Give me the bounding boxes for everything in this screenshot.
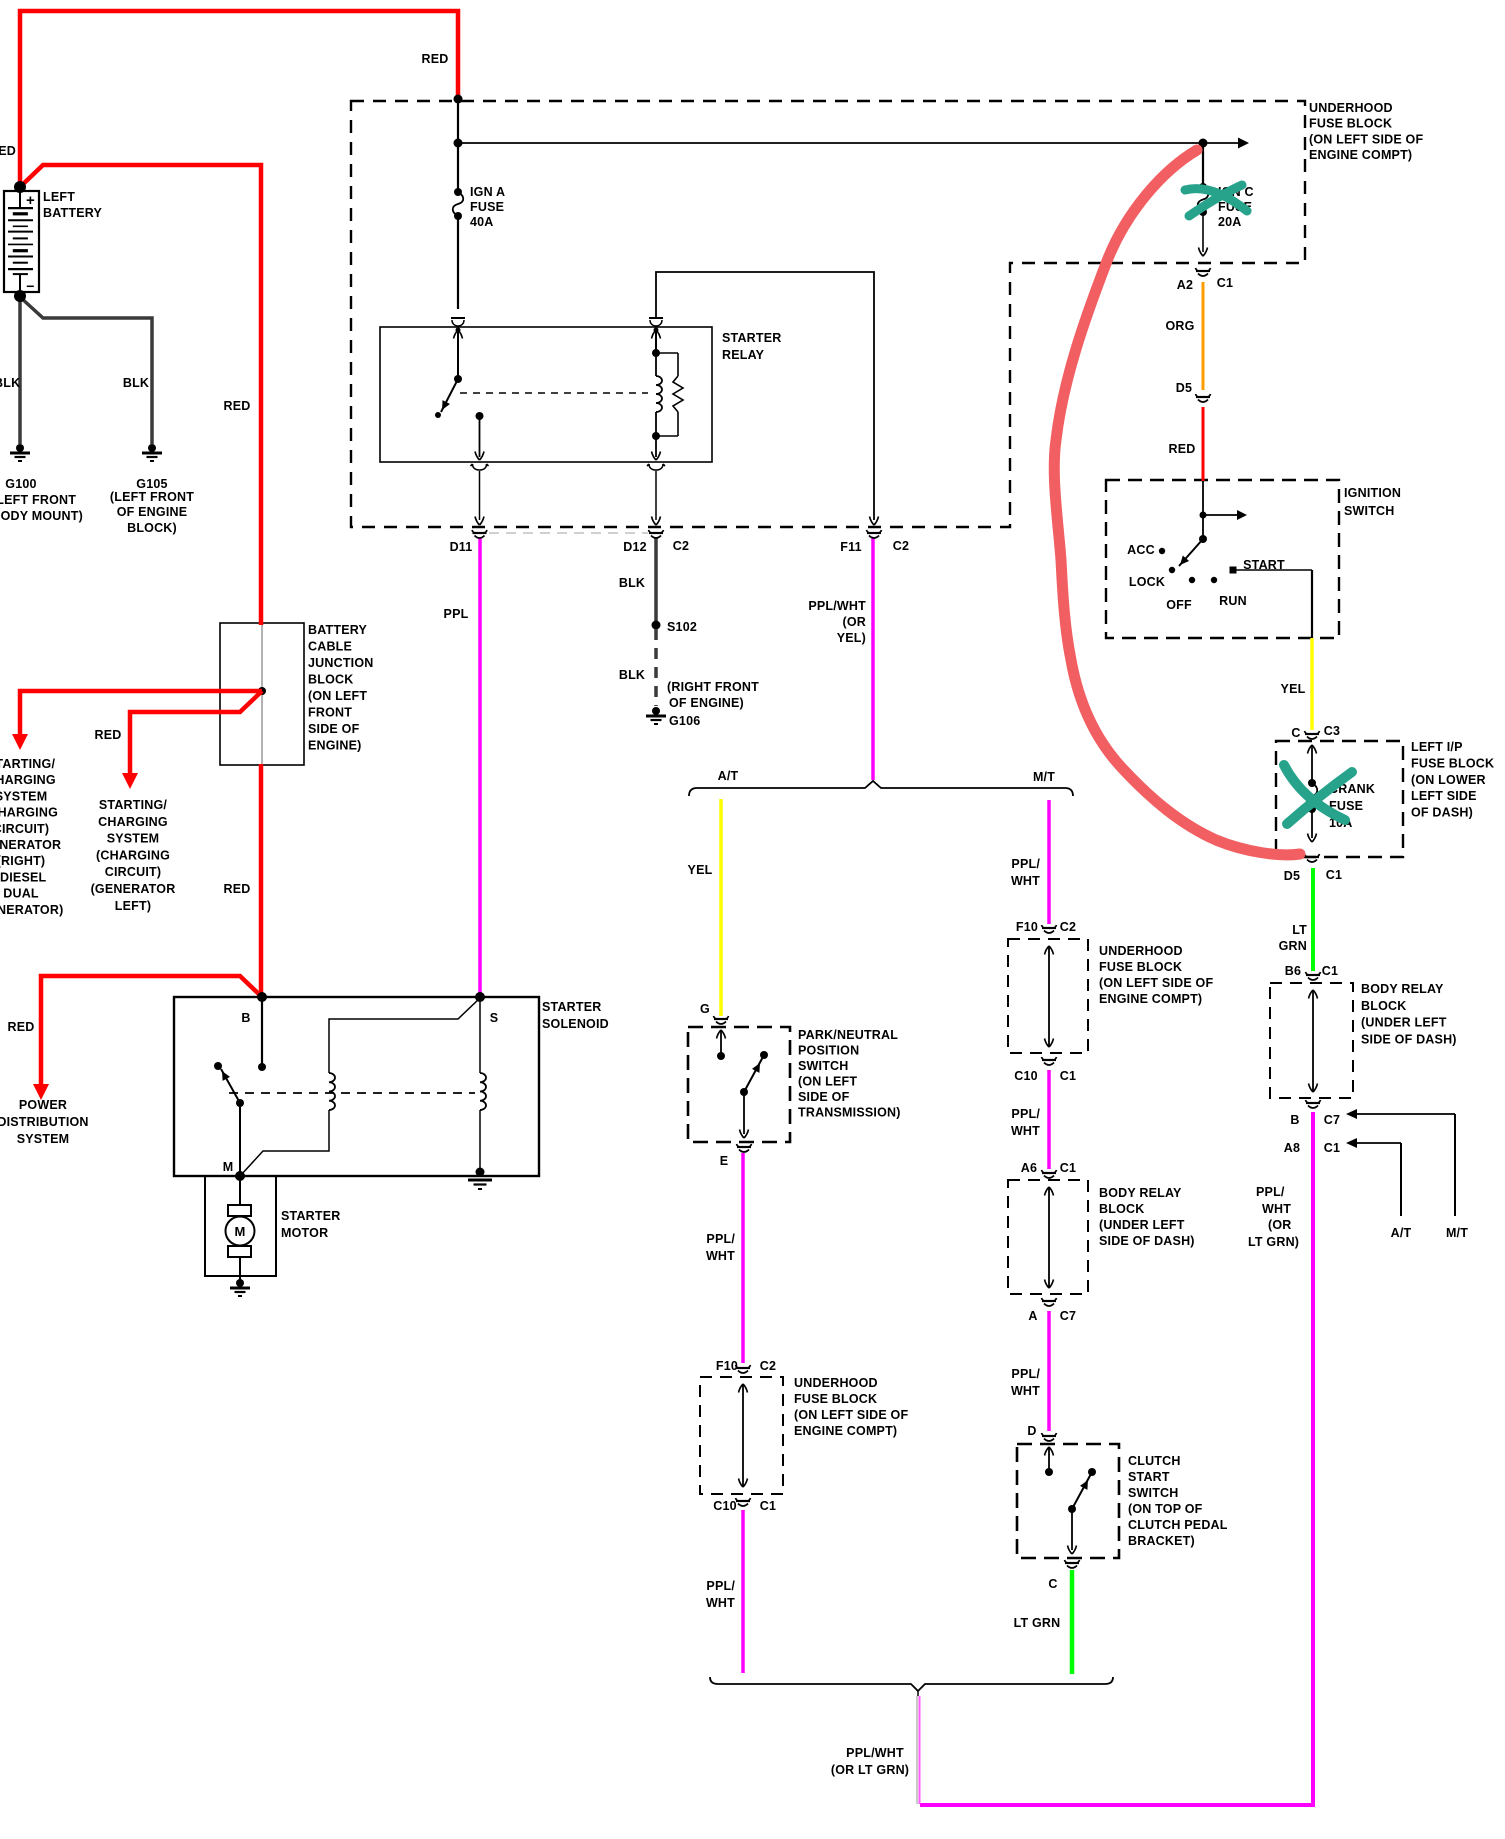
svg-text:C1: C1 <box>760 1499 776 1513</box>
svg-text:A8: A8 <box>1284 1141 1300 1155</box>
svg-text:RUN: RUN <box>1219 594 1247 608</box>
svg-text:G: G <box>700 1002 710 1016</box>
svg-text:ENGINE COMPT): ENGINE COMPT) <box>1099 992 1202 1006</box>
svg-text:LOCK: LOCK <box>1129 575 1165 589</box>
svg-text:OF ENGINE: OF ENGINE <box>117 505 188 519</box>
svg-text:PPL/: PPL/ <box>706 1579 735 1593</box>
svg-text:SYSTEM: SYSTEM <box>17 1132 70 1146</box>
svg-text:OF DASH): OF DASH) <box>1411 806 1473 820</box>
svg-text:(ON LEFT: (ON LEFT <box>308 689 367 703</box>
svg-text:RED: RED <box>224 399 251 413</box>
svg-text:C1: C1 <box>1326 868 1342 882</box>
svg-text:A/T: A/T <box>1391 1226 1412 1240</box>
svg-text:C7: C7 <box>1060 1309 1076 1323</box>
svg-text:IGN A: IGN A <box>470 185 505 199</box>
svg-text:F10: F10 <box>1016 920 1038 934</box>
svg-text:RED: RED <box>422 52 449 66</box>
svg-text:BATTERY: BATTERY <box>43 206 102 220</box>
svg-text:C2: C2 <box>1060 920 1076 934</box>
svg-text:CHARGING: CHARGING <box>0 773 56 787</box>
svg-text:G106: G106 <box>669 714 700 728</box>
svg-text:LT GRN: LT GRN <box>1014 1616 1061 1630</box>
svg-text:SIDE OF: SIDE OF <box>798 1090 850 1104</box>
svg-text:PPL/WHT: PPL/WHT <box>808 599 866 613</box>
svg-text:C1: C1 <box>1217 276 1233 290</box>
svg-text:D11: D11 <box>450 540 473 554</box>
svg-text:SYSTEM: SYSTEM <box>0 789 47 803</box>
svg-text:C1: C1 <box>1322 964 1338 978</box>
svg-text:D5: D5 <box>1284 869 1300 883</box>
svg-text:RED: RED <box>1169 442 1196 456</box>
svg-text:WHT: WHT <box>1262 1202 1291 1216</box>
svg-text:BATTERY: BATTERY <box>308 623 367 637</box>
svg-text:FUSE BLOCK: FUSE BLOCK <box>1099 960 1182 974</box>
svg-text:FRONT: FRONT <box>308 706 352 720</box>
svg-text:C10: C10 <box>713 1499 737 1513</box>
svg-text:ORG: ORG <box>1165 319 1194 333</box>
svg-text:S102: S102 <box>667 620 697 634</box>
svg-text:C10: C10 <box>1014 1069 1038 1083</box>
svg-text:GRN: GRN <box>1279 939 1307 953</box>
svg-text:C7: C7 <box>1324 1113 1340 1127</box>
svg-text:BLOCK: BLOCK <box>1099 1202 1144 1216</box>
svg-text:DISTRIBUTION: DISTRIBUTION <box>0 1115 89 1129</box>
svg-text:WHT: WHT <box>1011 874 1040 888</box>
svg-text:(LEFT FRONT: (LEFT FRONT <box>0 493 76 507</box>
svg-text:CLUTCH PEDAL: CLUTCH PEDAL <box>1128 1518 1228 1532</box>
svg-text:LEFT SIDE: LEFT SIDE <box>1411 789 1477 803</box>
svg-text:SIDE OF DASH): SIDE OF DASH) <box>1361 1032 1457 1046</box>
svg-text:JUNCTION: JUNCTION <box>308 656 374 670</box>
svg-text:F11: F11 <box>840 540 861 554</box>
svg-text:(ON LEFT SIDE OF: (ON LEFT SIDE OF <box>794 1408 908 1422</box>
svg-text:POWER: POWER <box>19 1098 67 1112</box>
svg-text:PPL/: PPL/ <box>1011 857 1040 871</box>
svg-text:UNDERHOOD: UNDERHOOD <box>794 1376 878 1390</box>
svg-text:START: START <box>1243 558 1285 572</box>
svg-text:C2: C2 <box>673 539 689 553</box>
svg-text:(LEFT FRONT: (LEFT FRONT <box>110 490 194 504</box>
svg-text:UNDERHOOD: UNDERHOOD <box>1099 944 1183 958</box>
svg-text:C1: C1 <box>1060 1161 1076 1175</box>
svg-text:POSITION: POSITION <box>798 1044 859 1058</box>
svg-text:PPL/: PPL/ <box>1011 1367 1040 1381</box>
svg-text:(OR: (OR <box>842 615 866 629</box>
svg-text:D5: D5 <box>1176 381 1192 395</box>
svg-text:(DIESEL: (DIESEL <box>0 870 47 884</box>
svg-text:CIRCUIT): CIRCUIT) <box>105 865 161 879</box>
svg-text:CABLE: CABLE <box>308 640 352 654</box>
svg-text:C3: C3 <box>1324 724 1340 738</box>
svg-text:BLOCK: BLOCK <box>308 673 353 687</box>
svg-text:WHT: WHT <box>706 1249 735 1263</box>
svg-text:OFF: OFF <box>1166 598 1192 612</box>
svg-text:D12: D12 <box>623 540 647 554</box>
svg-text:(RIGHT FRONT: (RIGHT FRONT <box>667 680 759 694</box>
svg-text:STARTER: STARTER <box>722 331 782 345</box>
svg-text:YEL: YEL <box>1281 682 1306 696</box>
svg-text:DUAL: DUAL <box>3 887 39 901</box>
svg-text:A2: A2 <box>1177 278 1193 292</box>
svg-text:C: C <box>1048 1577 1057 1591</box>
svg-text:WHT: WHT <box>1011 1124 1040 1138</box>
svg-text:TRANSMISSION): TRANSMISSION) <box>798 1106 901 1120</box>
svg-text:(RIGHT): (RIGHT) <box>0 854 45 868</box>
svg-text:B6: B6 <box>1285 964 1301 978</box>
svg-text:BLOCK: BLOCK <box>1361 999 1406 1013</box>
svg-text:OF ENGINE): OF ENGINE) <box>669 696 744 710</box>
svg-text:G100: G100 <box>5 477 36 491</box>
svg-text:A/T: A/T <box>718 769 739 783</box>
svg-text:GENERATOR: GENERATOR <box>0 838 61 852</box>
svg-text:(ON LEFT SIDE OF: (ON LEFT SIDE OF <box>1309 132 1423 146</box>
svg-text:WHT: WHT <box>1011 1384 1040 1398</box>
svg-text:BRACKET): BRACKET) <box>1128 1534 1195 1548</box>
svg-text:20A: 20A <box>1218 215 1242 229</box>
svg-text:STARTER: STARTER <box>542 1000 602 1014</box>
svg-text:(UNDER LEFT: (UNDER LEFT <box>1099 1218 1185 1232</box>
svg-text:PPL/: PPL/ <box>706 1232 735 1246</box>
svg-text:RELAY: RELAY <box>722 348 765 362</box>
svg-text:RED: RED <box>224 882 251 896</box>
svg-text:B: B <box>241 1011 250 1025</box>
svg-text:C1: C1 <box>1060 1069 1076 1083</box>
svg-text:PPL/: PPL/ <box>1256 1185 1285 1199</box>
svg-text:STARTING/: STARTING/ <box>0 757 55 771</box>
svg-text:S: S <box>490 1011 499 1025</box>
svg-text:(OR LT GRN): (OR LT GRN) <box>831 1763 909 1777</box>
svg-text:LT GRN): LT GRN) <box>1248 1235 1299 1249</box>
svg-text:LEFT I/P: LEFT I/P <box>1411 740 1463 754</box>
svg-text:PPL/: PPL/ <box>1011 1107 1040 1121</box>
svg-text:RED: RED <box>95 728 122 742</box>
svg-text:−: − <box>26 278 34 294</box>
svg-text:BLK: BLK <box>0 376 20 390</box>
svg-text:A: A <box>1028 1309 1037 1323</box>
svg-text:(GENERATOR: (GENERATOR <box>91 882 176 896</box>
svg-text:D: D <box>1027 1424 1036 1438</box>
svg-text:IGNITION: IGNITION <box>1344 486 1401 500</box>
svg-text:C: C <box>1291 726 1300 740</box>
svg-text:RED: RED <box>8 1020 35 1034</box>
svg-text:C2: C2 <box>893 539 909 553</box>
svg-text:BODY RELAY: BODY RELAY <box>1099 1186 1182 1200</box>
svg-text:BODY RELAY: BODY RELAY <box>1361 982 1444 996</box>
svg-text:BLOCK): BLOCK) <box>127 521 177 535</box>
svg-text:SIDE OF: SIDE OF <box>308 722 360 736</box>
svg-text:(UNDER LEFT: (UNDER LEFT <box>1361 1016 1447 1030</box>
svg-text:ACC: ACC <box>1127 543 1155 557</box>
svg-text:SWITCH: SWITCH <box>1128 1486 1179 1500</box>
svg-text:ENGINE COMPT): ENGINE COMPT) <box>1309 148 1412 162</box>
svg-text:C2: C2 <box>760 1359 776 1373</box>
svg-text:WHT: WHT <box>706 1596 735 1610</box>
svg-text:GENERATOR): GENERATOR) <box>0 903 63 917</box>
svg-text:SWITCH: SWITCH <box>1344 504 1395 518</box>
svg-text:PPL/WHT: PPL/WHT <box>846 1746 904 1760</box>
svg-text:MOTOR: MOTOR <box>281 1226 328 1240</box>
svg-text:40A: 40A <box>470 215 494 229</box>
svg-text:(ON LOWER: (ON LOWER <box>1411 773 1486 787</box>
svg-text:(ON TOP OF: (ON TOP OF <box>1128 1502 1203 1516</box>
svg-text:CLUTCH: CLUTCH <box>1128 1454 1181 1468</box>
svg-text:STARTER: STARTER <box>281 1209 341 1223</box>
svg-text:YEL: YEL <box>688 863 713 877</box>
svg-text:G105: G105 <box>136 477 167 491</box>
svg-text:BLK: BLK <box>123 376 149 390</box>
svg-text:PARK/NEUTRAL: PARK/NEUTRAL <box>798 1028 898 1042</box>
svg-text:C1: C1 <box>1324 1141 1340 1155</box>
svg-text:LEFT: LEFT <box>43 190 75 204</box>
svg-text:FUSE BLOCK: FUSE BLOCK <box>794 1392 877 1406</box>
svg-text:M: M <box>223 1160 234 1174</box>
svg-text:ENGINE): ENGINE) <box>308 739 362 753</box>
svg-text:SYSTEM: SYSTEM <box>107 832 160 846</box>
svg-text:+: + <box>26 192 35 209</box>
svg-text:B: B <box>1290 1113 1299 1127</box>
svg-text:(CHARGING: (CHARGING <box>96 848 170 862</box>
svg-text:CIRCUIT): CIRCUIT) <box>0 822 49 836</box>
svg-text:(CHARGING: (CHARGING <box>0 806 58 820</box>
svg-text:F10: F10 <box>716 1359 738 1373</box>
svg-text:(BODY MOUNT): (BODY MOUNT) <box>0 509 83 523</box>
svg-text:(ON LEFT: (ON LEFT <box>798 1075 857 1089</box>
svg-text:PPL: PPL <box>444 607 469 621</box>
svg-text:ENGINE COMPT): ENGINE COMPT) <box>794 1424 897 1438</box>
svg-text:BLK: BLK <box>619 576 645 590</box>
svg-text:E: E <box>720 1154 729 1168</box>
svg-text:SWITCH: SWITCH <box>798 1059 849 1073</box>
svg-text:M: M <box>234 1224 245 1239</box>
svg-text:SOLENOID: SOLENOID <box>542 1017 609 1031</box>
svg-text:YEL): YEL) <box>837 631 866 645</box>
svg-text:RED: RED <box>0 144 16 158</box>
svg-text:FUSE: FUSE <box>470 200 504 214</box>
svg-text:M/T: M/T <box>1033 770 1055 784</box>
svg-text:CHARGING: CHARGING <box>98 815 168 829</box>
svg-text:FUSE BLOCK: FUSE BLOCK <box>1411 756 1494 770</box>
svg-text:(ON LEFT SIDE OF: (ON LEFT SIDE OF <box>1099 976 1213 990</box>
svg-text:BLK: BLK <box>619 668 645 682</box>
svg-text:START: START <box>1128 1470 1170 1484</box>
svg-text:LT: LT <box>1292 923 1307 937</box>
svg-text:UNDERHOOD: UNDERHOOD <box>1309 101 1393 115</box>
svg-text:M/T: M/T <box>1446 1226 1468 1240</box>
svg-text:FUSE BLOCK: FUSE BLOCK <box>1309 117 1392 131</box>
svg-text:STARTING/: STARTING/ <box>99 798 168 812</box>
svg-text:LEFT): LEFT) <box>115 899 151 913</box>
svg-text:SIDE OF DASH): SIDE OF DASH) <box>1099 1234 1195 1248</box>
svg-text:(OR: (OR <box>1268 1218 1292 1232</box>
svg-text:A6: A6 <box>1021 1161 1037 1175</box>
